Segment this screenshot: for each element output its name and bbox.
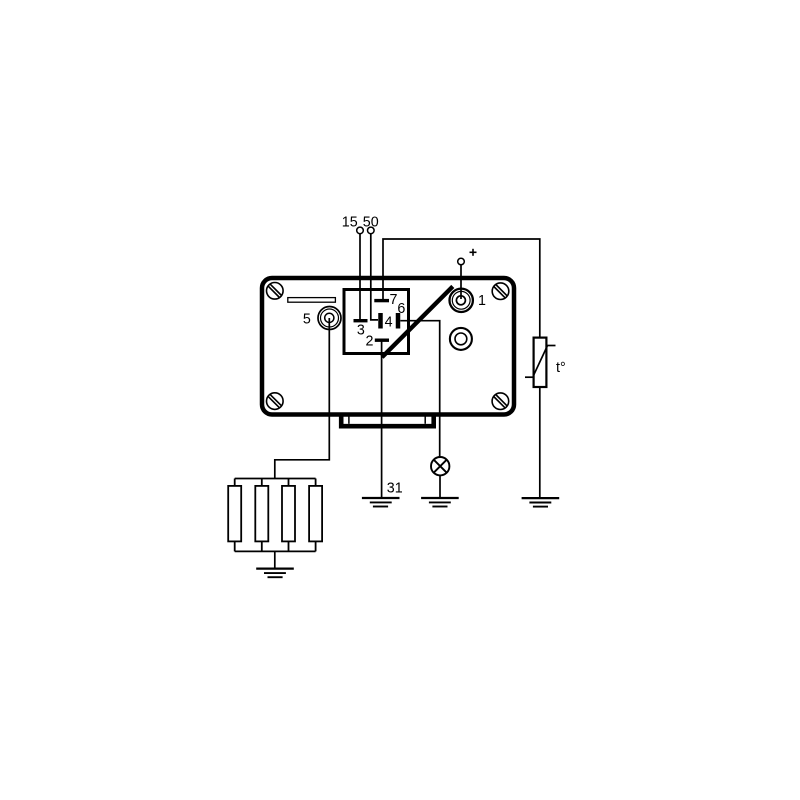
wire terminal5 to glow plugs: [275, 318, 330, 479]
ground thermistor: [522, 498, 560, 507]
svg-text:7: 7: [390, 292, 398, 308]
ground 31: [362, 498, 400, 507]
svg-text:31: 31: [387, 480, 403, 496]
glow plug R4: [309, 486, 322, 542]
glow plug R2: [255, 486, 268, 542]
thermistor diagonal: [534, 346, 548, 375]
svg-text:5: 5: [303, 312, 311, 328]
glow plug R1: [228, 486, 241, 542]
bottom connector tab of housing: [341, 414, 434, 426]
thermistor body: [534, 338, 547, 387]
glow plug top bus: [235, 478, 316, 480]
thermistor top tick: [548, 345, 556, 347]
svg-text:15: 15: [342, 215, 358, 231]
wire lamp to ground: [439, 475, 441, 498]
pin 4: [381, 313, 399, 329]
wire battery plus to terminal 1: [460, 265, 462, 299]
slot window: [288, 298, 336, 303]
label plus: [470, 249, 477, 256]
svg-text:4: 4: [385, 314, 393, 330]
lamp L1: [431, 457, 449, 475]
svg-text:2: 2: [366, 333, 374, 349]
svg-text:50: 50: [363, 215, 379, 231]
wire 15: [359, 234, 361, 319]
svg-text:6: 6: [397, 301, 405, 317]
wire thermistor to ground: [539, 387, 541, 498]
terminal 5 rings: [318, 307, 341, 330]
connector block: [344, 290, 409, 354]
ground lamp: [421, 498, 459, 507]
glow plug bottom stubs: [235, 541, 316, 552]
svg-text:3: 3: [357, 322, 365, 338]
wire pin6 to lamp: [400, 321, 439, 458]
glow plug bottom bus: [235, 550, 316, 552]
wire pin7 to thermistor: [383, 239, 540, 337]
screw top-right: [492, 283, 509, 300]
switch arm: [382, 286, 453, 357]
pin 3: [354, 319, 368, 322]
screw bottom-right: [492, 393, 509, 410]
pin 7: [374, 299, 389, 302]
wire 50: [371, 234, 378, 320]
unlabeled terminal rings: [450, 328, 472, 350]
terminal 1 rings: [450, 289, 473, 312]
glow plug R3: [282, 486, 295, 542]
glow plug top stubs: [235, 479, 316, 487]
svg-text:1: 1: [478, 293, 486, 309]
svg-text:t°: t°: [556, 360, 566, 376]
pin 2: [375, 339, 389, 342]
ground glow plugs: [256, 569, 294, 578]
terminal 15: [357, 227, 364, 234]
terminal 50: [368, 227, 375, 234]
wire plugs to ground: [274, 551, 276, 568]
screw bottom-left: [267, 393, 284, 410]
relay housing U1: [262, 278, 514, 415]
thermistor bottom tick: [525, 376, 534, 378]
wire pin2 to ground 31: [381, 341, 383, 498]
battery terminal: [458, 258, 465, 265]
screw top-left: [267, 283, 284, 300]
